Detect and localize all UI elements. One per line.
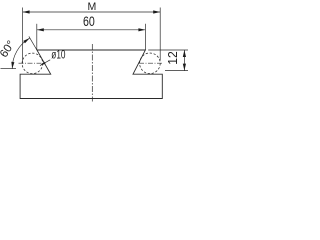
60 dim extension right xyxy=(144,24,146,50)
svg-text:ø10: ø10 xyxy=(51,47,65,61)
arrow angle arc top xyxy=(23,38,30,43)
pin circle left (Ø10) xyxy=(22,53,43,74)
Ø10 leader xyxy=(40,60,50,66)
60 dim extension left xyxy=(36,24,38,50)
60 dim line xyxy=(37,29,146,31)
svg-text:60°: 60° xyxy=(0,39,18,60)
pin circle right (Ø10) xyxy=(140,53,161,74)
part outline (male dovetail on bar) xyxy=(20,50,162,99)
arrow M right xyxy=(153,10,160,13)
svg-text:M: M xyxy=(88,1,97,13)
centerline right pin xyxy=(139,62,164,64)
M dim line xyxy=(23,11,161,13)
angle arc xyxy=(12,38,30,69)
centerline left pin xyxy=(19,62,45,64)
arrow angle arc bottom xyxy=(11,62,14,69)
svg-text:12: 12 xyxy=(165,51,180,65)
central axis xyxy=(91,44,93,102)
arrow 12 top xyxy=(183,50,186,57)
svg-text:60: 60 xyxy=(83,13,95,29)
arrow 60 right xyxy=(138,28,145,31)
M dim extension right xyxy=(159,8,161,61)
12 dim line xyxy=(183,50,185,71)
12 dim lower extension xyxy=(165,70,188,72)
flank extension line xyxy=(29,36,37,50)
arrow 60 left xyxy=(37,28,44,31)
angle horizontal leg xyxy=(1,68,17,70)
arrow leader xyxy=(40,62,46,66)
arrow M left xyxy=(23,10,30,13)
M dim extension left xyxy=(22,8,24,64)
12 dim upper extension xyxy=(148,49,188,51)
arrow 12 bottom xyxy=(183,64,186,71)
